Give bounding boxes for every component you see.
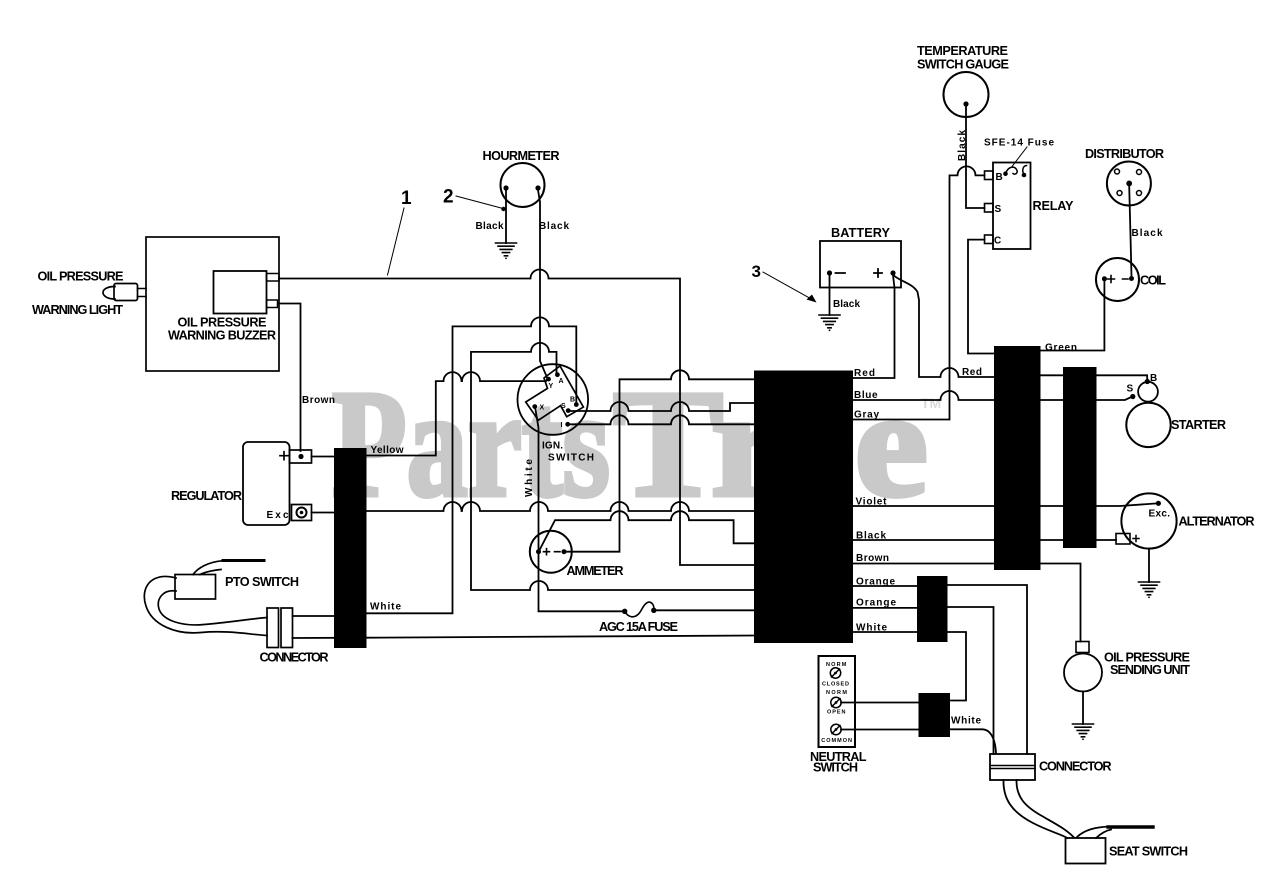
svg-text:COMMON: COMMON (821, 738, 852, 744)
harness bar 3 (917, 576, 948, 642)
svg-text:S: S (561, 403, 566, 410)
wire Orange 1 to connector (947, 585, 1027, 754)
SFE-14 fuse symbol (1003, 166, 1026, 178)
svg-text:Red: Red (962, 367, 982, 378)
harness bar (regulator) (334, 448, 367, 648)
ignition coil (1096, 258, 1139, 301)
svg-text:COIL: COIL (1140, 274, 1166, 288)
wire Orange 2 to connector (947, 607, 994, 754)
svg-text:Black: Black (476, 221, 504, 232)
distributor (1107, 162, 1151, 206)
svg-text:Yellow: Yellow (371, 445, 404, 456)
wire regulator + to bar1 (312, 456, 335, 458)
AGC 15A fuse (622, 602, 657, 617)
svg-text:Exc: Exc (267, 510, 289, 521)
harness bar 2 (1063, 367, 1097, 548)
svg-text:PTO SWITCH: PTO SWITCH (225, 575, 299, 589)
svg-text:WARNING LIGHT: WARNING LIGHT (32, 303, 123, 317)
svg-text:Orange: Orange (856, 577, 895, 588)
wire ammeter - to block (564, 370, 755, 551)
svg-text:SEAT SWITCH: SEAT SWITCH (1109, 845, 1188, 859)
svg-text:NORM: NORM (826, 690, 847, 696)
svg-text:X: X (540, 405, 545, 412)
main harness block (754, 371, 853, 644)
svg-text:WARNING BUZZER: WARNING BUZZER (168, 329, 276, 343)
wire ignition S to block (568, 402, 754, 411)
wire Brown buzzer to regulator + (278, 304, 301, 452)
svg-text:S: S (995, 204, 1002, 215)
ground (alternator) (1139, 582, 1160, 598)
wire Yellow bar1 to ignition Y (367, 372, 548, 455)
svg-text:HOURMETER: HOURMETER (483, 149, 560, 163)
wire Brown block to sending unit (853, 564, 1081, 642)
svg-text:Brown: Brown (302, 395, 335, 406)
ground (sending unit) (1073, 724, 1094, 740)
svg-text:Black: Black (1132, 228, 1163, 239)
svg-text:Red: Red (854, 368, 875, 379)
ignition switch (518, 364, 589, 435)
wire battery positive to bar (Red) (895, 276, 995, 377)
ground (hourmeter) (496, 243, 517, 259)
svg-text:S: S (1127, 384, 1134, 395)
svg-text:TM: TM (921, 395, 941, 411)
wire Red bar to starter B (1041, 375, 1148, 380)
svg-text:DISTRIBUTOR: DISTRIBUTOR (1085, 147, 1164, 161)
oil pressure warning light (103, 284, 146, 301)
wire Exc bar1 to block (367, 502, 755, 511)
svg-text:White: White (856, 623, 887, 634)
wire ammeter to AGC fuse to block (539, 554, 623, 611)
wire neutral switch NORM-OPEN to bar4 (841, 702, 919, 704)
svg-text:REGULATOR: REGULATOR (171, 489, 242, 503)
svg-text:SFE-14 Fuse: SFE-14 Fuse (984, 138, 1054, 149)
svg-text:1: 1 (401, 188, 412, 209)
svg-text:OIL PRESSURE: OIL PRESSURE (178, 316, 267, 330)
svg-text:White: White (370, 602, 401, 613)
svg-text:CONNECTOR: CONNECTOR (260, 651, 329, 665)
callout leader 2 (456, 196, 506, 211)
svg-text:OIL PRESSURE: OIL PRESSURE (38, 270, 124, 284)
wire long line connector to block (293, 616, 755, 638)
wire distributor to coil (Black) (1129, 186, 1131, 277)
svg-text:2: 2 (443, 187, 454, 208)
svg-text:BATTERY: BATTERY (831, 226, 891, 240)
svg-text:C: C (994, 236, 1001, 247)
wire bar1 to ignition B (White) (367, 317, 577, 613)
wire Gray harness to relay B (853, 166, 985, 419)
svg-text:OPEN: OPEN (827, 710, 846, 716)
svg-text:White: White (951, 716, 981, 727)
svg-text:Exc.: Exc. (1149, 509, 1171, 520)
svg-text:SWITCH GAUGE: SWITCH GAUGE (917, 58, 1009, 72)
wire battery negative to ground (829, 275, 831, 315)
svg-text:B: B (996, 172, 1003, 183)
wire buzzer output to harness block (279, 270, 755, 566)
warning buzzer enclosure (146, 237, 279, 371)
svg-text:Black: Black (856, 531, 886, 542)
watermark PartsTree (332, 359, 941, 529)
wire temperature gauge to relay S (966, 106, 985, 208)
svg-text:Y: Y (549, 383, 554, 390)
wire neutral switch COMMON to bar4 (841, 729, 919, 731)
wire ignition X to ammeter (535, 407, 539, 549)
svg-text:CONNECTOR: CONNECTOR (1039, 760, 1112, 774)
svg-text:I: I (561, 422, 563, 429)
wire regulator Exc to bar1 (312, 512, 335, 514)
wire Black block to alternator + (853, 539, 1116, 541)
svg-text:CLOSED: CLOSED (822, 682, 849, 688)
harness bar 4 (919, 693, 951, 737)
seat switch (1066, 838, 1106, 864)
wire Violet block to alternator (853, 501, 1161, 506)
wire ignition A to block (471, 343, 755, 590)
wire relay C to connector bar (968, 240, 995, 354)
ground (battery) (819, 315, 840, 331)
wire Orange 1 (853, 585, 918, 587)
wire hourmeter to ignition switch Y (538, 190, 548, 379)
svg-text:ALTERNATOR: ALTERNATOR (1179, 515, 1255, 529)
svg-text:Gray: Gray (854, 410, 879, 421)
PTO cable loop (144, 576, 267, 635)
svg-text:IGN.: IGN. (542, 441, 563, 452)
svg-text:Black: Black (539, 221, 569, 232)
svg-text:AGC 15A FUSE: AGC 15A FUSE (599, 620, 678, 634)
svg-text:NORM: NORM (826, 662, 847, 668)
wire Orange 2 (853, 607, 918, 609)
svg-text:TEMPERATURE: TEMPERATURE (917, 44, 1008, 58)
wire bar3 to bar4 (947, 632, 966, 701)
svg-text:Black: Black (833, 299, 860, 310)
svg-text:Violet: Violet (856, 497, 888, 508)
leader SFE-14 fuse (1012, 147, 1027, 167)
relay (985, 163, 1031, 250)
svg-text:Blue: Blue (854, 390, 878, 401)
svg-text:Orange: Orange (856, 598, 896, 609)
wire alternator to ground (1148, 549, 1150, 582)
battery (820, 241, 901, 288)
svg-text:B: B (1150, 373, 1157, 384)
harness bar (right tall) (994, 346, 1041, 570)
wire sending unit to ground (1082, 692, 1084, 725)
svg-text:3: 3 (752, 262, 761, 281)
svg-text:AMMETER: AMMETER (567, 564, 624, 578)
neutral switch (819, 656, 856, 747)
svg-text:B: B (570, 397, 575, 404)
wire White bar4 to connector (950, 729, 996, 753)
wire fuse to block (654, 609, 755, 611)
seat switch leads (1077, 827, 1153, 839)
wire Blue block to starter S (853, 391, 1133, 400)
wire White block to bar3 (853, 631, 918, 633)
callout leader 3 (763, 272, 817, 303)
starter (1126, 379, 1170, 447)
svg-text:A: A (559, 378, 564, 385)
svg-text:RELAY: RELAY (1033, 199, 1075, 213)
wire hourmeter to ground (505, 190, 507, 243)
hourmeter gauge (501, 163, 545, 207)
svg-text:Green: Green (1045, 343, 1077, 354)
svg-text:Black: Black (957, 130, 968, 161)
wire Green coil to bar (1041, 281, 1105, 351)
callout leader 1 (388, 208, 405, 275)
wire ignition I to block (568, 415, 755, 424)
wires connector to seat switch (1003, 780, 1073, 838)
svg-text:STARTER: STARTER (1171, 418, 1226, 432)
svg-text:Brown: Brown (856, 553, 889, 564)
temperature switch gauge (944, 72, 989, 117)
wire ammeter + upper to block (540, 511, 755, 550)
ammeter (530, 531, 572, 573)
alternator (1116, 493, 1177, 548)
oil pressure warning buzzer (214, 271, 280, 314)
oil pressure sending unit (1064, 642, 1102, 692)
connector (PTO) (267, 608, 293, 648)
svg-text:SWITCH: SWITCH (813, 761, 858, 775)
svg-text:SENDING UNIT: SENDING UNIT (1110, 663, 1190, 677)
PTO switch (175, 561, 264, 600)
wire battery positive to block (Red) (853, 275, 895, 378)
regulator (243, 442, 312, 525)
connector (seat harness) (990, 754, 1035, 780)
